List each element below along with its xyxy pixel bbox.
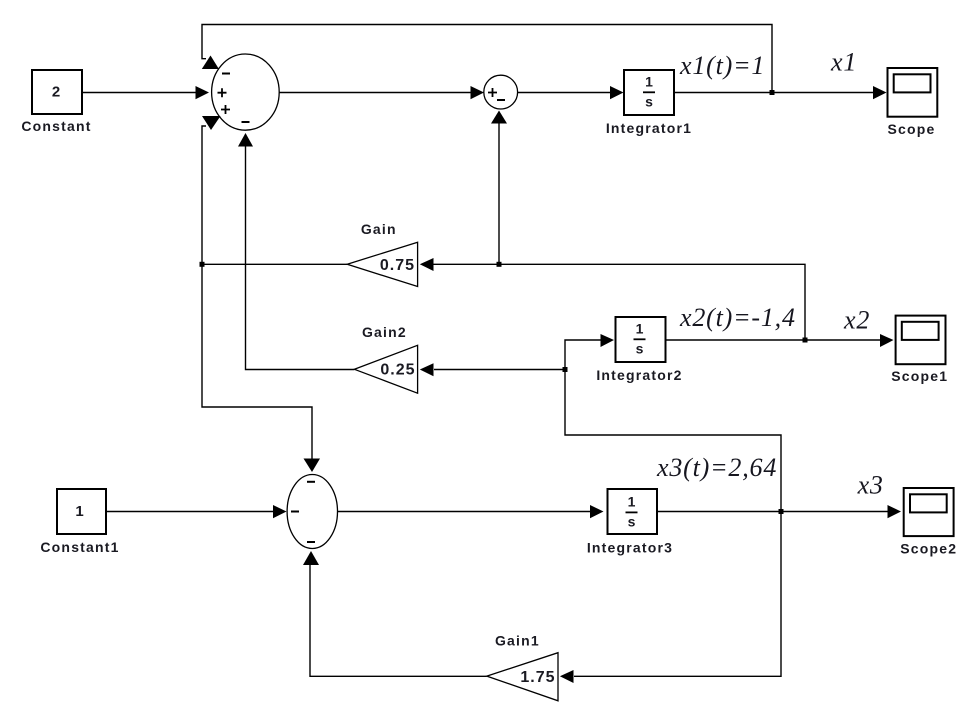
- wire rail down to Sum2 top input: [202, 264, 320, 472]
- svg-text:1: 1: [645, 74, 653, 90]
- svg-text:1: 1: [75, 503, 83, 520]
- gain block Gain1 (1.75): [487, 653, 558, 701]
- sum block Sum2 (ellipse, bottom): [287, 475, 337, 549]
- svg-text:x1(t)=1: x1(t)=1: [679, 51, 765, 80]
- wire tap to Sum1 bottom input: [491, 111, 507, 265]
- junction x1 feedback: [770, 90, 775, 95]
- svg-text:1: 1: [636, 321, 644, 337]
- gain block Gain (0.75): [347, 242, 417, 286]
- svg-text:2: 2: [52, 83, 60, 100]
- integrator block Integrator2 (1/s): [616, 317, 666, 362]
- sum block Sum (ellipse): [212, 54, 280, 130]
- scope block Scope: [888, 68, 938, 117]
- svg-text:s: s: [645, 94, 653, 110]
- svg-text:x2: x2: [843, 306, 870, 335]
- wire Sum2 to Integrator3: [338, 505, 604, 518]
- wire Sum to Sum1: [279, 86, 484, 99]
- svg-text:Integrator2: Integrator2: [596, 367, 682, 383]
- svg-text:x3: x3: [857, 471, 884, 500]
- svg-text:Gain2: Gain2: [362, 324, 407, 340]
- integrator block Integrator3 (1/s): [608, 489, 658, 534]
- wire Constant1 to Sum2: [106, 505, 287, 518]
- svg-text:Constant: Constant: [21, 118, 91, 134]
- junction Gain output rail: [200, 262, 205, 267]
- scope block Scope1: [896, 316, 946, 365]
- constant block Constant1: [57, 489, 106, 534]
- wire rail to Gain2 input: [420, 363, 565, 376]
- wire x3 tap rail to Integrator2 input: [565, 334, 781, 512]
- constant block Constant: [32, 70, 82, 114]
- svg-text:x3(t)=2,64: x3(t)=2,64: [656, 453, 777, 482]
- wire Gain1 output to Sum2 bottom input: [303, 551, 487, 676]
- svg-text:1: 1: [628, 494, 636, 510]
- junction x3 tap: [779, 509, 784, 514]
- svg-text:Constant1: Constant1: [40, 539, 119, 555]
- wire x2 tap to Gain input: [420, 258, 805, 340]
- wire Integrator3 to Scope2 (x3): [657, 505, 901, 518]
- svg-text:s: s: [628, 514, 636, 530]
- sum block Sum1 (circle): [484, 75, 518, 109]
- scope block Scope2: [904, 488, 954, 536]
- svg-text:Gain1: Gain1: [495, 633, 540, 649]
- svg-text:x2(t)=-1,4: x2(t)=-1,4: [679, 303, 796, 332]
- svg-text:Integrator1: Integrator1: [606, 120, 692, 136]
- wire Gain2 output to Sum bottom input: [238, 133, 354, 370]
- svg-text:Integrator3: Integrator3: [587, 540, 673, 556]
- gain block Gain2 (0.25): [354, 345, 417, 393]
- wire Integrator2 to Scope1 (x2): [666, 334, 894, 347]
- wire x3 tap down to Gain1 input: [560, 512, 781, 684]
- wire Constant to Sum: [82, 86, 209, 99]
- integrator block Integrator1 (1/s): [624, 70, 674, 115]
- svg-text:1.75: 1.75: [520, 669, 555, 686]
- junction Gain2 input: [563, 367, 568, 372]
- wire feedback x1 top (junction to Sum top input): [202, 25, 772, 93]
- junction Sum1 bottom tap: [497, 262, 502, 267]
- svg-text:Gain: Gain: [361, 221, 397, 237]
- wire rail up to Sum lower-left input: [202, 116, 221, 264]
- svg-text:s: s: [636, 341, 644, 357]
- svg-text:0.25: 0.25: [380, 362, 415, 379]
- wire Integrator1 to Scope (x1): [674, 86, 887, 99]
- svg-text:Scope: Scope: [887, 121, 935, 137]
- wire Gain output to rail: [202, 263, 347, 265]
- svg-text:Scope1: Scope1: [891, 368, 948, 384]
- svg-text:x1: x1: [830, 48, 857, 77]
- svg-text:0.75: 0.75: [380, 257, 415, 274]
- junction x2 tap: [803, 338, 808, 343]
- svg-text:Scope2: Scope2: [900, 541, 957, 557]
- wire Sum1 to Integrator1: [518, 86, 624, 99]
